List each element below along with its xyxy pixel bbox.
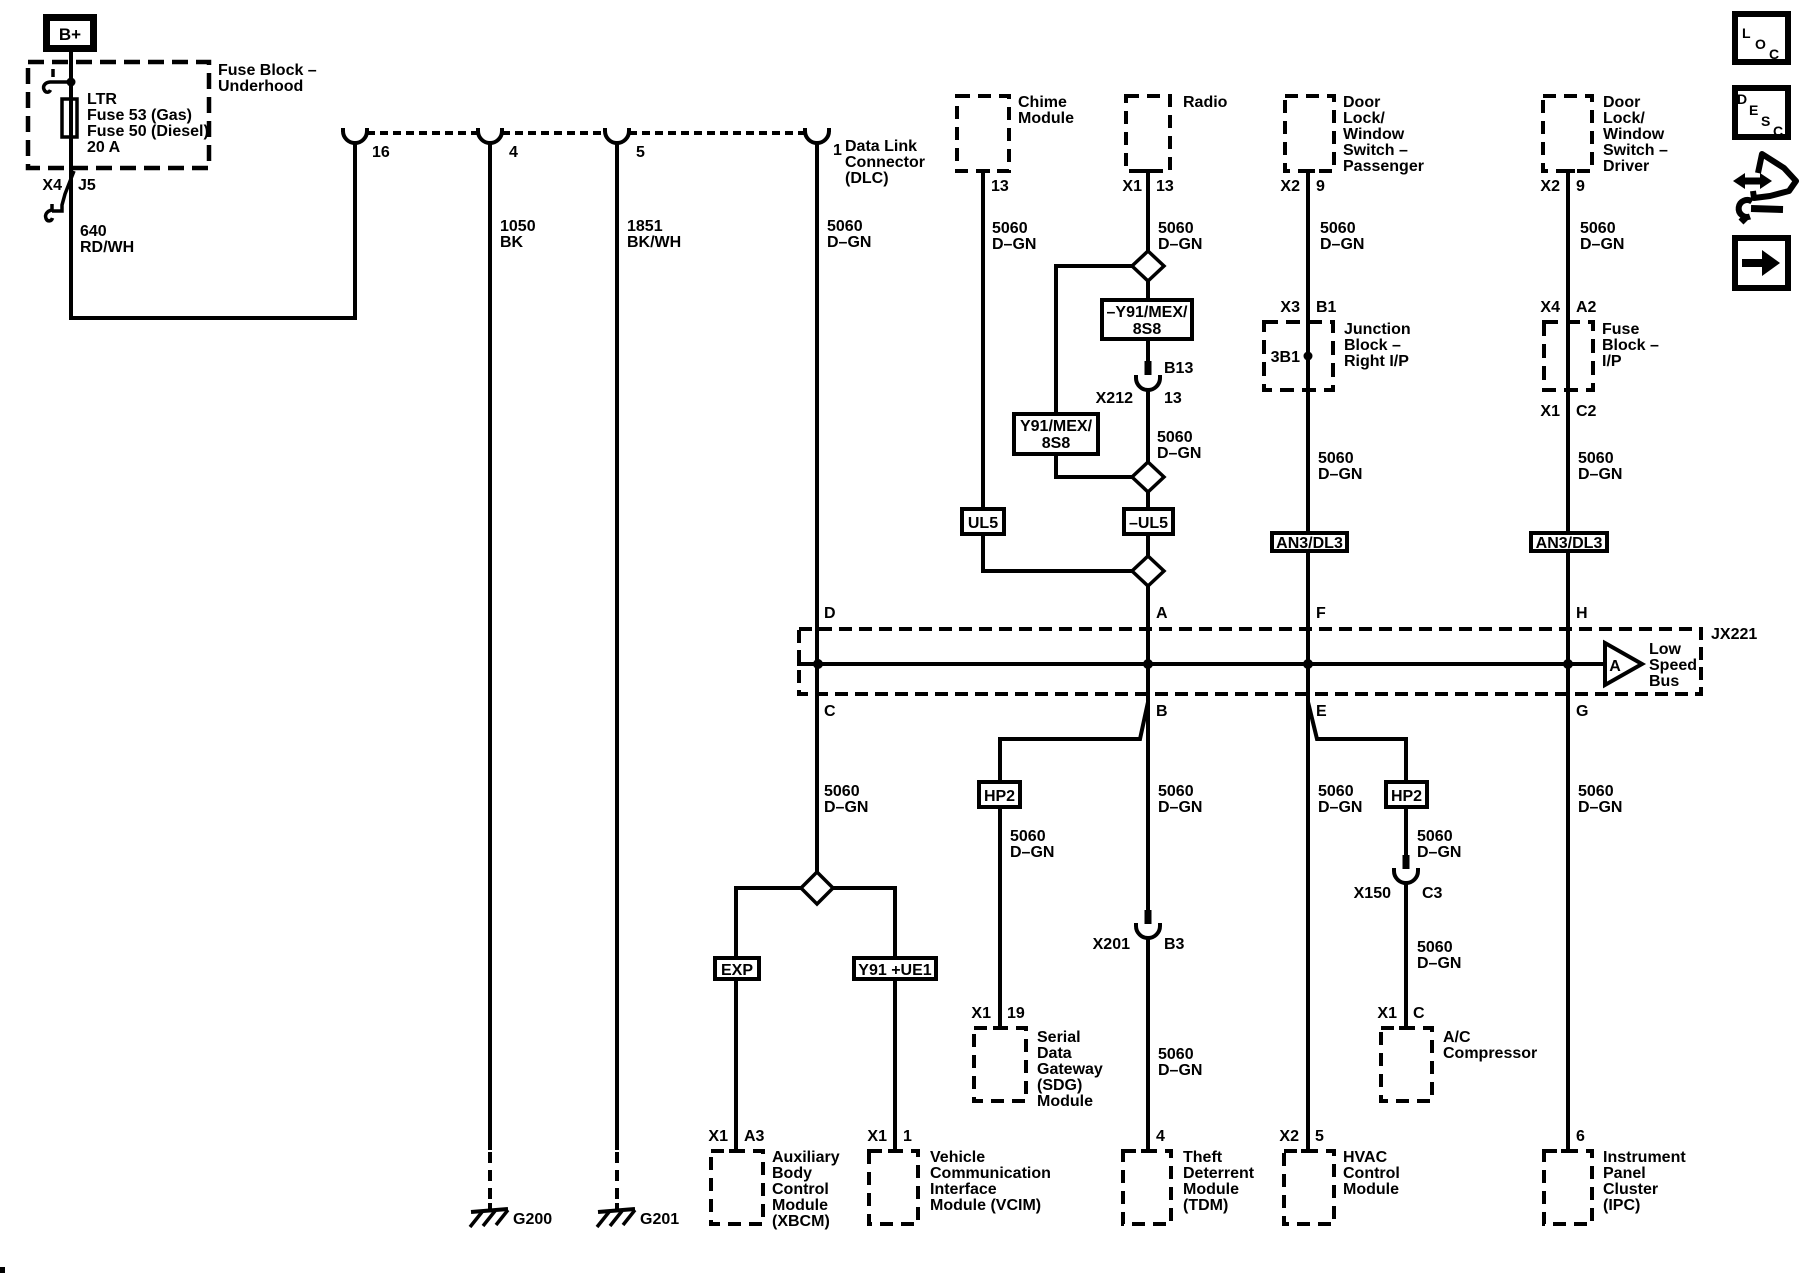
svg-text:D–GN: D–GN xyxy=(1158,799,1202,816)
svg-text:O: O xyxy=(1755,36,1766,52)
svg-text:AN3/DL3: AN3/DL3 xyxy=(1276,535,1343,552)
svg-text:8S8: 8S8 xyxy=(1042,435,1071,452)
svg-text:A/C: A/C xyxy=(1443,1029,1471,1046)
wire 5060 D-GN to TDM xyxy=(1146,938,1150,1149)
svg-text:5060: 5060 xyxy=(1417,828,1453,845)
svg-text:Module: Module xyxy=(1183,1181,1239,1198)
svg-text:4: 4 xyxy=(1156,1128,1165,1145)
instrument panel cluster box xyxy=(1544,1151,1592,1224)
svg-text:I/P: I/P xyxy=(1602,353,1622,370)
svg-text:8S8: 8S8 xyxy=(1133,321,1162,338)
option box HP2 left xyxy=(979,782,1020,807)
svg-text:1851: 1851 xyxy=(627,218,663,235)
inline connector X212 pin B13/13 xyxy=(1145,361,1152,375)
svg-text:5060: 5060 xyxy=(1010,828,1046,845)
svg-text:Chime: Chime xyxy=(1018,94,1067,111)
svg-text:X1: X1 xyxy=(867,1128,887,1145)
svg-text:Theft: Theft xyxy=(1183,1149,1223,1166)
svg-text:640: 640 xyxy=(80,223,107,240)
fuse block underhood dashed box xyxy=(28,62,209,168)
svg-text:Data Link: Data Link xyxy=(845,138,917,155)
branch wire to Y91/MEX option box xyxy=(1056,266,1132,477)
svg-text:6: 6 xyxy=(1576,1128,1585,1145)
svg-text:X212: X212 xyxy=(1096,390,1133,407)
svg-text:E: E xyxy=(1316,703,1327,720)
svg-text:Gateway: Gateway xyxy=(1037,1061,1103,1078)
svg-text:Underhood: Underhood xyxy=(218,78,303,95)
svg-text:D–GN: D–GN xyxy=(1320,236,1364,253)
svg-text:D–GN: D–GN xyxy=(1318,466,1362,483)
dashed DLC link wire xyxy=(367,131,805,135)
svg-text:D–GN: D–GN xyxy=(827,234,871,251)
svg-text:HP2: HP2 xyxy=(984,788,1015,805)
svg-text:5: 5 xyxy=(1315,1128,1324,1145)
svg-text:X2: X2 xyxy=(1540,178,1560,195)
DLC pin 5 cup xyxy=(605,128,629,143)
hotlink icon wrench xyxy=(1751,209,1783,210)
svg-text:D–GN: D–GN xyxy=(1158,1062,1202,1079)
ground G200 xyxy=(488,1203,492,1210)
svg-text:A3: A3 xyxy=(744,1128,765,1145)
wire 1851 BK/WH xyxy=(615,143,619,1150)
svg-text:X4: X4 xyxy=(42,177,62,194)
bus junction dot F xyxy=(1303,659,1313,669)
svg-text:Module: Module xyxy=(772,1197,828,1214)
wire 1050 BK xyxy=(488,143,492,1150)
splice diamond above -UL5 xyxy=(1132,462,1164,492)
svg-text:Module: Module xyxy=(1343,1181,1399,1198)
svg-text:BK/WH: BK/WH xyxy=(627,234,681,251)
svg-text:1: 1 xyxy=(833,142,842,159)
svg-text:D: D xyxy=(1737,91,1747,107)
svg-text:Communication: Communication xyxy=(930,1165,1051,1182)
svg-text:G201: G201 xyxy=(640,1211,679,1228)
svg-text:–Y91/MEX/: –Y91/MEX/ xyxy=(1107,304,1188,321)
svg-text:L: L xyxy=(1742,25,1751,41)
forward icon box xyxy=(1735,238,1788,288)
option box AN3/DL3 passenger xyxy=(1272,533,1347,551)
svg-text:G200: G200 xyxy=(513,1211,552,1228)
inline connector X150 pin C3 xyxy=(1403,855,1410,869)
svg-text:Module: Module xyxy=(1018,110,1074,127)
svg-text:(DLC): (DLC) xyxy=(845,170,889,187)
DLC pin 1 cup xyxy=(805,128,829,143)
svg-text:D–GN: D–GN xyxy=(824,799,868,816)
svg-text:Low: Low xyxy=(1649,641,1682,658)
svg-text:5060: 5060 xyxy=(1318,450,1354,467)
svg-text:X1: X1 xyxy=(1122,178,1142,195)
svg-text:4: 4 xyxy=(509,144,518,161)
svg-text:5: 5 xyxy=(636,144,645,161)
svg-text:Block –: Block – xyxy=(1602,337,1659,354)
svg-text:5060: 5060 xyxy=(1157,429,1193,446)
wire 5060 D-GN passenger to HVAC xyxy=(1306,173,1310,1149)
svg-text:13: 13 xyxy=(991,178,1009,195)
branch wire E to HP2/AC xyxy=(1308,702,1406,1026)
svg-text:RD/WH: RD/WH xyxy=(80,239,134,256)
svg-text:16: 16 xyxy=(372,144,390,161)
svg-text:1: 1 xyxy=(903,1128,912,1145)
svg-text:Fuse 50 (Diesel): Fuse 50 (Diesel) xyxy=(87,123,209,140)
svg-text:5060: 5060 xyxy=(1580,220,1616,237)
svg-text:X4: X4 xyxy=(1540,299,1560,316)
svg-text:F: F xyxy=(1316,605,1326,622)
svg-text:G: G xyxy=(1576,703,1588,720)
svg-text:EXP: EXP xyxy=(721,962,753,979)
svg-text:Fuse 53 (Gas): Fuse 53 (Gas) xyxy=(87,107,192,124)
svg-text:9: 9 xyxy=(1316,178,1325,195)
svg-text:X1: X1 xyxy=(971,1005,991,1022)
svg-text:5060: 5060 xyxy=(1320,220,1356,237)
svg-text:Bus: Bus xyxy=(1649,673,1679,690)
svg-text:JX221: JX221 xyxy=(1711,626,1757,643)
junction block - right I/P dashed box xyxy=(1264,322,1333,390)
svg-text:Interface: Interface xyxy=(930,1181,997,1198)
clip symbol at X4 xyxy=(46,204,53,221)
svg-text:Y91 +UE1: Y91 +UE1 xyxy=(858,962,931,979)
svg-text:X1: X1 xyxy=(1377,1005,1397,1022)
svg-text:Instrument: Instrument xyxy=(1603,1149,1686,1166)
svg-text:X2: X2 xyxy=(1280,178,1300,195)
svg-text:5060: 5060 xyxy=(1578,450,1614,467)
low speed bus dashed box JX221 xyxy=(799,629,1701,694)
svg-text:H: H xyxy=(1576,605,1588,622)
svg-text:Module: Module xyxy=(1037,1093,1093,1110)
svg-text:D: D xyxy=(824,605,836,622)
svg-text:5060: 5060 xyxy=(1318,783,1354,800)
chime module box xyxy=(957,96,1009,171)
svg-text:Junction: Junction xyxy=(1344,321,1411,338)
svg-text:Lock/: Lock/ xyxy=(1603,110,1645,127)
svg-text:(TDM): (TDM) xyxy=(1183,1197,1228,1214)
door lock/window switch - driver box xyxy=(1543,96,1592,171)
vehicle communication interface module box xyxy=(869,1151,918,1224)
svg-text:Block –: Block – xyxy=(1344,337,1401,354)
svg-text:Control: Control xyxy=(772,1181,829,1198)
svg-text:5060: 5060 xyxy=(1158,220,1194,237)
branch wire B to HP2/SDG xyxy=(1000,702,1148,1026)
svg-text:Passenger: Passenger xyxy=(1343,158,1424,175)
svg-text:13: 13 xyxy=(1164,390,1182,407)
svg-text:5060: 5060 xyxy=(1158,1046,1194,1063)
svg-text:X150: X150 xyxy=(1354,885,1391,902)
option box HP2 right xyxy=(1386,782,1427,807)
hotlink icon double arrow xyxy=(1733,173,1772,189)
splice diamond on DLC branch xyxy=(736,888,801,1149)
serial data gateway module box xyxy=(974,1028,1026,1101)
svg-text:Control: Control xyxy=(1343,1165,1400,1182)
option box -Y91/MEX/8S8 xyxy=(1102,300,1192,339)
svg-text:(SDG): (SDG) xyxy=(1037,1077,1082,1094)
svg-text:Window: Window xyxy=(1603,126,1665,143)
svg-text:D–GN: D–GN xyxy=(992,236,1036,253)
DLC pin 4 cup xyxy=(478,128,502,143)
wire 640 RD/WH from B+ through fuse block, right and up to DLC pin 16 xyxy=(71,52,355,318)
svg-text:Window: Window xyxy=(1343,126,1405,143)
svg-text:5060: 5060 xyxy=(1578,783,1614,800)
svg-text:HVAC: HVAC xyxy=(1343,1149,1388,1166)
splice diamond joining chime branch xyxy=(1132,556,1164,586)
svg-text:Panel: Panel xyxy=(1603,1165,1646,1182)
svg-text:Fuse: Fuse xyxy=(1602,321,1639,338)
svg-text:Compressor: Compressor xyxy=(1443,1045,1537,1062)
option box UL5 xyxy=(962,509,1004,534)
connector X4/J5 slash xyxy=(52,171,74,211)
svg-text:Auxiliary: Auxiliary xyxy=(772,1149,840,1166)
option box EXP xyxy=(715,958,759,979)
DESC icon box xyxy=(1735,88,1788,137)
clip symbol at fuse feed xyxy=(51,69,55,77)
svg-text:Serial: Serial xyxy=(1037,1029,1081,1046)
svg-text:Switch –: Switch – xyxy=(1343,142,1408,159)
svg-text:C3: C3 xyxy=(1422,885,1443,902)
svg-text:A2: A2 xyxy=(1576,299,1597,316)
svg-text:Connector: Connector xyxy=(845,154,925,171)
HVAC control module box xyxy=(1284,1151,1334,1224)
option box AN3/DL3 driver xyxy=(1531,533,1607,551)
svg-text:–UL5: –UL5 xyxy=(1129,515,1168,532)
svg-text:3B1: 3B1 xyxy=(1271,349,1300,366)
svg-text:D–GN: D–GN xyxy=(1157,445,1201,462)
svg-text:X201: X201 xyxy=(1093,936,1130,953)
auxiliary body control module box xyxy=(711,1151,763,1224)
svg-text:S: S xyxy=(1761,113,1770,129)
svg-text:Lock/: Lock/ xyxy=(1343,110,1385,127)
svg-text:5060: 5060 xyxy=(1158,783,1194,800)
bus junction dot D xyxy=(813,659,823,669)
bus arrow A xyxy=(1605,643,1642,685)
svg-text:C: C xyxy=(1413,1005,1425,1022)
svg-text:BK: BK xyxy=(500,234,524,251)
svg-text:D–GN: D–GN xyxy=(1578,466,1622,483)
svg-text:B+: B+ xyxy=(59,25,81,44)
svg-text:X2: X2 xyxy=(1279,1128,1299,1145)
svg-text:5060: 5060 xyxy=(824,783,860,800)
wire 5060 D-GN chime to splice xyxy=(983,173,1132,571)
svg-text:Cluster: Cluster xyxy=(1603,1181,1658,1198)
theft deterrent module box xyxy=(1123,1151,1171,1224)
svg-text:Module (VCIM): Module (VCIM) xyxy=(930,1197,1041,1214)
svg-text:X3: X3 xyxy=(1280,299,1300,316)
bus junction dot H xyxy=(1563,659,1573,669)
svg-text:D–GN: D–GN xyxy=(1158,236,1202,253)
svg-text:Driver: Driver xyxy=(1603,158,1649,175)
wire 5060 D-GN radio xyxy=(1146,173,1150,361)
DLC pin 16 cup xyxy=(343,128,367,143)
inline connector X201 pin B3 xyxy=(1145,910,1152,924)
wire 5060 D-GN from DLC pin 1 to splice xyxy=(815,143,819,872)
svg-text:D–GN: D–GN xyxy=(1010,844,1054,861)
fuse block - I/P dashed box xyxy=(1544,322,1593,390)
svg-text:Fuse Block –: Fuse Block – xyxy=(218,62,317,79)
option box -UL5 xyxy=(1124,509,1173,534)
svg-text:1050: 1050 xyxy=(500,218,536,235)
svg-text:HP2: HP2 xyxy=(1391,788,1422,805)
svg-text:UL5: UL5 xyxy=(968,515,998,532)
svg-text:Right I/P: Right I/P xyxy=(1344,353,1409,370)
svg-text:B: B xyxy=(1156,703,1168,720)
svg-text:13: 13 xyxy=(1156,178,1174,195)
svg-text:D–GN: D–GN xyxy=(1318,799,1362,816)
svg-text:Speed: Speed xyxy=(1649,657,1697,674)
B+ power symbol xyxy=(47,18,94,49)
svg-text:C: C xyxy=(1769,46,1779,62)
svg-text:D–GN: D–GN xyxy=(1417,844,1461,861)
svg-text:9: 9 xyxy=(1576,178,1585,195)
svg-text:AN3/DL3: AN3/DL3 xyxy=(1536,535,1603,552)
svg-text:B1: B1 xyxy=(1316,299,1337,316)
svg-text:C: C xyxy=(1773,123,1783,139)
A/C compressor box xyxy=(1381,1028,1432,1101)
splice diamond on radio wire xyxy=(1132,251,1164,281)
svg-text:(XBCM): (XBCM) xyxy=(772,1213,830,1230)
radio box xyxy=(1126,96,1170,171)
svg-text:X1: X1 xyxy=(1540,403,1560,420)
svg-text:C2: C2 xyxy=(1576,403,1597,420)
ground G201 xyxy=(615,1203,619,1210)
junction dot at fuse feed xyxy=(67,78,76,87)
low speed bus wire xyxy=(797,662,1604,666)
svg-text:B13: B13 xyxy=(1164,360,1193,377)
LOC icon box xyxy=(1735,14,1788,62)
svg-text:D–GN: D–GN xyxy=(1417,955,1461,972)
svg-text:20 A: 20 A xyxy=(87,139,121,156)
svg-text:5060: 5060 xyxy=(992,220,1028,237)
svg-text:Body: Body xyxy=(772,1165,812,1182)
svg-text:5060: 5060 xyxy=(827,218,863,235)
page corner mark xyxy=(0,1267,5,1273)
svg-text:A: A xyxy=(1156,605,1168,622)
svg-text:B3: B3 xyxy=(1164,936,1185,953)
svg-text:D–GN: D–GN xyxy=(1578,799,1622,816)
svg-text:19: 19 xyxy=(1007,1005,1025,1022)
svg-text:Switch –: Switch – xyxy=(1603,142,1668,159)
option box Y91/MEX/8S8 xyxy=(1014,414,1098,454)
svg-text:5060: 5060 xyxy=(1417,939,1453,956)
svg-text:D–GN: D–GN xyxy=(1580,236,1624,253)
wire 5060 D-GN driver to IPC xyxy=(1566,173,1570,1149)
bus junction dot A xyxy=(1143,659,1153,669)
svg-text:Y91/MEX/: Y91/MEX/ xyxy=(1020,418,1093,435)
junction 3B1 dot xyxy=(1304,352,1313,361)
wire 5060 D-GN below X212 xyxy=(1146,390,1150,910)
svg-text:J5: J5 xyxy=(78,177,96,194)
svg-text:(IPC): (IPC) xyxy=(1603,1197,1640,1214)
hotlink icon squiggle xyxy=(1753,154,1796,198)
svg-text:Deterrent: Deterrent xyxy=(1183,1165,1255,1182)
svg-text:C: C xyxy=(824,703,836,720)
svg-text:Door: Door xyxy=(1603,94,1640,111)
svg-text:Door: Door xyxy=(1343,94,1380,111)
option box Y91 +UE1 xyxy=(854,958,936,979)
svg-text:X1: X1 xyxy=(708,1128,728,1145)
svg-text:Vehicle: Vehicle xyxy=(930,1149,985,1166)
fuse LTR Fuse 53 (Gas) / Fuse 50 (Diesel) 20 A xyxy=(62,99,77,137)
svg-text:Radio: Radio xyxy=(1183,94,1228,111)
svg-text:LTR: LTR xyxy=(87,91,117,108)
svg-text:A: A xyxy=(1609,658,1621,675)
door lock/window switch - passenger box xyxy=(1285,96,1334,171)
svg-text:E: E xyxy=(1749,102,1758,118)
svg-text:Data: Data xyxy=(1037,1045,1072,1062)
